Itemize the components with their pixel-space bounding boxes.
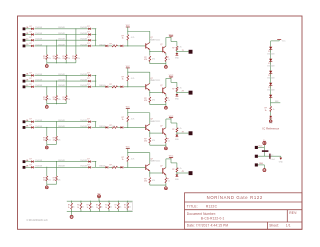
svg-text:R?: R? [53, 56, 55, 58]
svg-text:D?: D? [30, 26, 32, 28]
svg-text:1N4148: 1N4148 [80, 39, 87, 41]
svg-text:1k: 1k [168, 59, 170, 61]
svg-text:1N4148: 1N4148 [35, 74, 42, 76]
svg-text:REV:: REV: [289, 211, 297, 215]
svg-text:B-CS-R122-0-1: B-CS-R122-0-1 [201, 217, 225, 221]
svg-text:1N4148: 1N4148 [80, 126, 87, 128]
svg-text:1N4148: 1N4148 [267, 89, 275, 91]
svg-text:D?: D? [87, 72, 89, 74]
svg-text:22k: 22k [48, 99, 51, 101]
svg-text:GND: GND [259, 163, 264, 165]
svg-text:1N4148: 1N4148 [35, 80, 42, 82]
svg-text:1N4148: 1N4148 [35, 120, 42, 122]
svg-text:1N4148: 1N4148 [58, 126, 65, 128]
svg-text:R?: R? [53, 177, 55, 179]
svg-text:Date:: Date: [187, 224, 195, 228]
svg-text:1k: 1k [122, 38, 124, 40]
svg-text:1N4148: 1N4148 [80, 80, 87, 82]
svg-text:D?: D? [30, 119, 32, 121]
svg-text:1N4148: 1N4148 [58, 33, 65, 35]
svg-text:22k: 22k [53, 180, 56, 182]
svg-text:R?: R? [77, 205, 79, 207]
svg-text:D?: D? [30, 84, 32, 86]
svg-text:4.7k: 4.7k [112, 166, 115, 168]
svg-text:GND: GND [175, 179, 180, 181]
svg-text:D?: D? [30, 43, 32, 45]
svg-text:1k: 1k [110, 207, 112, 209]
svg-text:470: 470 [144, 100, 147, 102]
svg-text:22k: 22k [77, 58, 80, 60]
svg-text:1k: 1k [101, 207, 103, 209]
svg-text:1N4148: 1N4148 [80, 33, 87, 35]
svg-text:D?: D? [87, 37, 89, 39]
svg-text:7/7/2017 4:44:15 PM: 7/7/2017 4:44:15 PM [196, 224, 229, 228]
svg-text:1k: 1k [96, 207, 98, 209]
svg-text:1k: 1k [105, 207, 107, 209]
svg-text:1N4148: 1N4148 [35, 33, 42, 35]
svg-text:D?: D? [87, 26, 89, 28]
svg-text:D?: D? [30, 78, 32, 80]
svg-text:470: 470 [144, 59, 147, 61]
svg-text:1k: 1k [77, 207, 79, 209]
svg-text:470: 470 [144, 141, 147, 143]
svg-text:4.7k: 4.7k [178, 87, 181, 89]
svg-text:1N4148: 1N4148 [35, 160, 42, 162]
svg-text:Sheet:: Sheet: [269, 224, 279, 228]
svg-text:470: 470 [144, 181, 147, 183]
svg-text:R?: R? [43, 56, 45, 58]
svg-text:22k: 22k [43, 140, 46, 142]
svg-text:1N4148: 1N4148 [80, 160, 87, 162]
svg-text:1N4148: 1N4148 [99, 85, 105, 87]
svg-text:D?: D? [30, 32, 32, 34]
svg-text:4.7k: 4.7k [131, 78, 135, 80]
svg-text:1k: 1k [265, 110, 267, 112]
svg-text:GND: GND [175, 139, 180, 141]
svg-text:1N4148: 1N4148 [58, 74, 65, 76]
svg-text:D?: D? [30, 124, 32, 126]
svg-text:R?: R? [43, 177, 45, 179]
svg-text:D?: D? [87, 164, 89, 166]
svg-text:1k: 1k [122, 159, 124, 161]
svg-text:1k: 1k [168, 180, 170, 182]
svg-text:1N4148: 1N4148 [35, 27, 42, 29]
svg-text:22k: 22k [58, 58, 61, 60]
svg-text:1k: 1k [68, 207, 70, 209]
svg-text:TITLE:: TITLE: [187, 204, 198, 208]
svg-text:4.7k: 4.7k [178, 128, 181, 130]
svg-text:4.7k: 4.7k [131, 37, 135, 39]
svg-text:1N4148: 1N4148 [99, 166, 105, 168]
svg-text:1N4148: 1N4148 [35, 166, 42, 168]
svg-text:22k: 22k [58, 99, 61, 101]
svg-text:470: 470 [152, 180, 155, 182]
svg-text:D?: D? [87, 119, 89, 121]
svg-text:Q?: Q? [160, 165, 162, 167]
svg-text:R?: R? [53, 137, 55, 139]
svg-text:D?: D? [87, 43, 89, 45]
svg-text:1N4148: 1N4148 [58, 85, 65, 87]
svg-text:22k: 22k [53, 140, 56, 142]
svg-text:1N4148: 1N4148 [80, 74, 87, 76]
svg-text:1N4148: 1N4148 [35, 126, 42, 128]
svg-text:R?: R? [53, 97, 55, 99]
svg-text:1N4148: 1N4148 [58, 160, 65, 162]
svg-text:1N4148: 1N4148 [58, 166, 65, 168]
svg-text:1k: 1k [122, 119, 124, 121]
svg-text:GND: GND [175, 58, 180, 60]
svg-text:4.7k: 4.7k [178, 168, 181, 170]
svg-text:D?: D? [30, 72, 32, 74]
svg-text:C:\R122\R122C.sch: C:\R122\R122C.sch [27, 219, 49, 222]
svg-text:1N4148: 1N4148 [80, 85, 87, 87]
svg-text:22k: 22k [67, 99, 70, 101]
svg-text:470: 470 [152, 59, 155, 61]
svg-text:R?: R? [124, 205, 126, 207]
svg-text:22k: 22k [58, 139, 61, 141]
svg-text:22k: 22k [48, 139, 51, 141]
svg-text:1k: 1k [168, 100, 170, 102]
svg-text:Q?: Q? [160, 44, 162, 46]
svg-text:22k: 22k [43, 180, 46, 182]
svg-text:470: 470 [152, 140, 155, 142]
svg-text:R?: R? [68, 205, 70, 207]
svg-text:1k: 1k [273, 109, 275, 111]
svg-text:D?: D? [30, 159, 32, 161]
svg-text:22k: 22k [53, 99, 56, 101]
svg-text:D?: D? [87, 78, 89, 80]
svg-text:R?: R? [172, 48, 174, 50]
svg-text:1k: 1k [73, 207, 75, 209]
svg-text:22k: 22k [43, 58, 46, 60]
svg-text:22k: 22k [67, 58, 70, 60]
svg-text:1k: 1k [168, 140, 170, 142]
svg-text:1N4148: 1N4148 [58, 27, 65, 29]
svg-text:1N4148: 1N4148 [58, 39, 65, 41]
svg-text:1k: 1k [87, 207, 89, 209]
svg-text:GND: GND [175, 98, 180, 100]
svg-text:1/1: 1/1 [286, 224, 291, 228]
svg-text:R122C: R122C [206, 204, 218, 208]
svg-text:22k: 22k [58, 179, 61, 181]
svg-text:1k: 1k [129, 207, 131, 209]
svg-text:1k: 1k [92, 207, 94, 209]
svg-text:22k: 22k [72, 58, 75, 60]
svg-text:22k: 22k [48, 58, 51, 60]
svg-text:470: 470 [152, 99, 155, 101]
svg-text:4.7k: 4.7k [131, 159, 135, 161]
svg-text:R?: R? [96, 205, 98, 207]
svg-text:D?: D? [87, 159, 89, 161]
svg-text:MMBT2222: MMBT2222 [150, 39, 160, 41]
svg-text:R?: R? [63, 56, 65, 58]
svg-text:R?: R? [63, 97, 65, 99]
svg-text:1N4148: 1N4148 [58, 80, 65, 82]
svg-text:D?: D? [30, 37, 32, 39]
svg-text:1N4148: 1N4148 [35, 85, 42, 87]
svg-text:1N4148: 1N4148 [267, 77, 275, 79]
svg-text:R?: R? [105, 205, 107, 207]
svg-text:NOR/NAND Gate R122: NOR/NAND Gate R122 [207, 195, 263, 200]
svg-text:1N4148: 1N4148 [99, 126, 105, 128]
svg-text:4.7k: 4.7k [112, 85, 115, 87]
svg-text:22k: 22k [48, 179, 51, 181]
svg-text:R?: R? [172, 169, 174, 171]
svg-text:MMBT2222: MMBT2222 [150, 121, 160, 123]
svg-text:Q?: Q? [160, 125, 162, 127]
svg-text:1k: 1k [115, 207, 117, 209]
svg-text:1N4148: 1N4148 [80, 166, 87, 168]
svg-text:1N4148: 1N4148 [99, 44, 105, 46]
svg-text:1N4148: 1N4148 [80, 44, 87, 46]
svg-text:4.7k: 4.7k [112, 126, 115, 128]
svg-text:4.7k: 4.7k [131, 119, 135, 121]
svg-text:1k: 1k [82, 207, 84, 209]
svg-text:IC Reference: IC Reference [262, 126, 279, 130]
svg-text:D?: D? [30, 164, 32, 166]
svg-text:4.7k: 4.7k [178, 47, 181, 49]
svg-text:R?: R? [115, 205, 117, 207]
svg-text:R?: R? [72, 56, 74, 58]
svg-text:R?: R? [43, 137, 45, 139]
svg-text:22k: 22k [63, 58, 66, 60]
svg-text:1k: 1k [124, 207, 126, 209]
svg-text:C?: C? [271, 155, 273, 157]
svg-text:D?: D? [87, 124, 89, 126]
svg-text:1N4148: 1N4148 [80, 27, 87, 29]
svg-text:R?: R? [43, 97, 45, 99]
svg-text:D?: D? [87, 32, 89, 34]
svg-text:GND: GND [279, 161, 284, 163]
svg-text:Q?: Q? [160, 85, 162, 87]
svg-text:1N4148: 1N4148 [267, 53, 275, 55]
svg-text:1N4148: 1N4148 [35, 44, 42, 46]
svg-text:Document Number:: Document Number: [187, 212, 216, 216]
svg-text:D?: D? [87, 84, 89, 86]
svg-text:R?: R? [172, 88, 174, 90]
svg-text:22k: 22k [53, 58, 56, 60]
svg-text:1N4148: 1N4148 [58, 44, 65, 46]
svg-text:R?: R? [172, 129, 174, 131]
svg-text:1k: 1k [120, 207, 122, 209]
svg-text:1N4148: 1N4148 [58, 120, 65, 122]
svg-text:MMBT2222: MMBT2222 [150, 161, 160, 163]
svg-text:1N4148: 1N4148 [35, 39, 42, 41]
svg-text:1k: 1k [122, 79, 124, 81]
svg-text:R?: R? [87, 205, 89, 207]
svg-text:MMBT2222: MMBT2222 [150, 80, 160, 82]
svg-text:4.7k: 4.7k [112, 44, 115, 46]
svg-text:22k: 22k [63, 99, 66, 101]
svg-text:1N4148: 1N4148 [267, 65, 275, 67]
svg-text:1N4148: 1N4148 [80, 120, 87, 122]
svg-text:22k: 22k [43, 99, 46, 101]
